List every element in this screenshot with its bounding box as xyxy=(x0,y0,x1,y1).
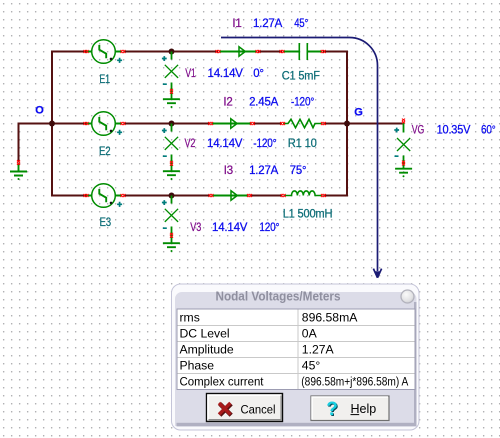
svg-text:60°: 60° xyxy=(481,125,496,137)
svg-text:2.45A: 2.45A xyxy=(249,97,279,109)
svg-text:Phase: Phase xyxy=(180,359,215,373)
svg-text:120°: 120° xyxy=(259,222,279,234)
svg-text:Cancel: Cancel xyxy=(241,403,276,417)
svg-text:V3: V3 xyxy=(190,222,201,234)
svg-text:E3: E3 xyxy=(100,217,112,229)
svg-text:45°: 45° xyxy=(294,18,308,30)
svg-text:E1: E1 xyxy=(99,74,110,86)
svg-text:896.58mA: 896.58mA xyxy=(302,311,358,325)
svg-text:I2: I2 xyxy=(223,97,232,109)
svg-text:1.27A: 1.27A xyxy=(302,343,335,357)
svg-text:-120°: -120° xyxy=(291,97,314,109)
svg-text:75°: 75° xyxy=(290,165,307,177)
svg-text:V1: V1 xyxy=(185,68,196,80)
svg-text:L1 500mH: L1 500mH xyxy=(283,208,333,220)
svg-text:I1: I1 xyxy=(232,18,241,30)
svg-text:1.27A: 1.27A xyxy=(253,18,283,30)
svg-text:0A: 0A xyxy=(302,327,318,341)
svg-text:14.14V: 14.14V xyxy=(208,68,244,80)
svg-text:10.35V: 10.35V xyxy=(437,125,471,137)
svg-text:-120°: -120° xyxy=(253,138,276,150)
svg-text:14.14V: 14.14V xyxy=(212,222,248,234)
svg-text:VG: VG xyxy=(412,125,424,137)
svg-text:14.14V: 14.14V xyxy=(207,138,243,150)
svg-text:Nodal Voltages/Meters: Nodal Voltages/Meters xyxy=(216,290,341,304)
svg-text:Complex current: Complex current xyxy=(180,375,265,389)
svg-text:(896.58m+j*896.58m) A: (896.58m+j*896.58m) A xyxy=(301,375,409,389)
svg-text:I3: I3 xyxy=(224,165,233,177)
svg-text:R1 10: R1 10 xyxy=(288,138,317,150)
svg-text:Help: Help xyxy=(351,402,377,416)
svg-text:0°: 0° xyxy=(253,68,263,80)
svg-text:V2: V2 xyxy=(185,138,196,150)
svg-text:1.27A: 1.27A xyxy=(249,165,279,177)
svg-text:?: ? xyxy=(326,399,338,420)
svg-text:C1 5mF: C1 5mF xyxy=(282,70,320,82)
svg-text:G: G xyxy=(354,107,362,119)
svg-text:45°: 45° xyxy=(302,359,321,373)
svg-text:rms: rms xyxy=(180,311,200,325)
svg-text:DC Level: DC Level xyxy=(180,327,230,341)
svg-text:E2: E2 xyxy=(99,146,111,158)
svg-text:O: O xyxy=(35,105,44,117)
svg-text:Amplitude: Amplitude xyxy=(180,343,234,357)
